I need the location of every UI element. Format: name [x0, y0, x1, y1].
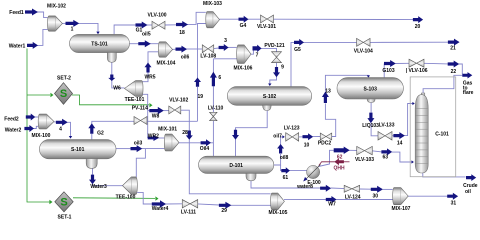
svg-text:LV-111: LV-111 [181, 209, 196, 215]
svg-text:Water2: Water2 [5, 128, 22, 134]
svg-text:LV-123: LV-123 [284, 125, 300, 131]
stream arrow 29 [219, 202, 232, 209]
svg-text:G2: G2 [97, 131, 104, 137]
stream arrow oil6 [176, 46, 188, 53]
svg-text:1: 1 [71, 27, 74, 33]
svg-text:MIX-103: MIX-103 [203, 1, 222, 7]
svg-text:oil7: oil7 [273, 134, 282, 140]
svg-text:61: 61 [283, 175, 289, 181]
svg-text:C-101: C-101 [435, 131, 449, 137]
svg-text:MIX-102: MIX-102 [47, 3, 66, 9]
valve PVD-121 vertical [272, 52, 282, 58]
stream arrow water8 [320, 185, 331, 192]
svg-text:VLV-103: VLV-103 [355, 157, 374, 163]
svg-text:S-102: S-102 [263, 94, 277, 100]
svg-text:QHH: QHH [333, 165, 345, 171]
stream arrow Water3 down [89, 175, 96, 185]
stream arrow oil8 up [277, 144, 284, 154]
stream arrow 19 up [194, 78, 201, 87]
stream arrow 30 [371, 186, 383, 193]
stream arrow Water4 [152, 200, 166, 208]
wire oil6 MIX-104 to LV-108 [172, 48, 176, 50]
stream arrow 61 [281, 167, 290, 174]
wire stream 14 LV-133 to C-101 upper inlet [392, 135, 394, 137]
svg-text:S-103: S-103 [364, 86, 378, 92]
stream arrow WR5 up [145, 63, 152, 73]
wire S-102 boot to D-101 top inlet [236, 110, 268, 130]
svg-text:28: 28 [182, 130, 188, 136]
separator D-101 [199, 156, 274, 173]
stream arrow LIQ103 down [367, 113, 374, 124]
svg-text:19: 19 [198, 94, 204, 100]
svg-text:MIX-106: MIX-106 [234, 65, 253, 71]
wire energy SET-1 to stream Water4 [73, 197, 155, 200]
svg-text:31: 31 [451, 201, 457, 207]
svg-text:flare: flare [463, 90, 474, 96]
svg-text:29: 29 [221, 208, 227, 214]
svg-text:TS-101: TS-101 [91, 42, 108, 48]
stream arrow 28 down [186, 131, 193, 140]
wire C-101 overhead to flare junction [423, 75, 462, 95]
svg-text:20: 20 [415, 24, 421, 30]
stream arrow 1 [66, 20, 80, 27]
mixer MIX-105 [271, 193, 285, 210]
wire water8 D-101 boot to LV-124 [251, 181, 321, 188]
mixer MIX-102 [48, 16, 63, 31]
svg-text:30: 30 [373, 193, 379, 199]
stream arrow G4 [239, 16, 249, 23]
svg-text:MIX-104: MIX-104 [157, 61, 176, 67]
stream arrow 7 [253, 45, 262, 53]
stream arrow G2 up [88, 123, 95, 134]
wire E-100 outlet up to stream 62 and VLV-103 [319, 150, 335, 166]
svg-text:G103: G103 [382, 68, 394, 74]
wire Water2 to MIX-100 [34, 126, 39, 128]
svg-text:PV-114: PV-114 [132, 105, 148, 111]
svg-text:Water3: Water3 [90, 184, 107, 190]
valve VLV-103 [357, 146, 365, 155]
separator S-103 [337, 78, 403, 99]
wire TEE-101 lower outlet to W8 and WR2 [143, 94, 148, 138]
stream arrow 31 [447, 193, 458, 200]
wire D-101 gas out to oil8 LV-123 [274, 154, 281, 165]
stream arrow 13 up [322, 92, 329, 104]
splitter TEE-100 [123, 177, 138, 195]
mixer MIX-100 [38, 114, 54, 129]
stream arrow 63 [381, 148, 392, 155]
svg-text:PDC2: PDC2 [318, 141, 332, 147]
svg-text:4: 4 [59, 127, 62, 133]
stream arrow 20 [413, 16, 423, 23]
three-phase separator TS-101 [70, 34, 130, 52]
svg-text:13: 13 [325, 89, 331, 95]
stream arrow 14 [393, 132, 405, 139]
svg-text:VLV-100: VLV-100 [147, 13, 166, 19]
mixer MIX-107 [393, 188, 409, 205]
svg-text:21: 21 [450, 45, 456, 51]
svg-text:7: 7 [256, 52, 259, 58]
stream arrow 6 up [210, 72, 217, 87]
adjust block SET-1 [55, 192, 73, 212]
svg-text:oil8: oil8 [280, 155, 289, 161]
mixer MIX-104 [158, 42, 172, 57]
stream arrow Feed2 [26, 114, 36, 121]
svg-text:oil3: oil3 [134, 141, 143, 147]
separator S-102 [227, 87, 311, 106]
wire stream 61 branch to E-100 [280, 165, 283, 171]
wire stream 10 LV-123 to PDC2 [299, 136, 303, 138]
stream arrow G5 [294, 39, 304, 46]
svg-text:18: 18 [179, 30, 185, 36]
stream arrow Water2 [24, 125, 34, 132]
wire VLV-102 out to stream 28 down to MIX-105 [181, 110, 190, 131]
valve LV-124 [344, 185, 352, 192]
boot of S-102 [263, 105, 272, 110]
wire energy QHH red into E-100 [319, 162, 335, 166]
svg-text:Oil4: Oil4 [200, 146, 210, 152]
valve VLV-106 [409, 59, 417, 67]
stream arrow G103 [384, 60, 396, 67]
wire W6 TS-101 boot to TEE-101 [111, 62, 113, 75]
stream arrow W8 [149, 107, 164, 115]
svg-text:S: S [60, 88, 67, 100]
svg-text:Water4: Water4 [152, 206, 169, 212]
svg-text:LV-108: LV-108 [200, 54, 216, 60]
svg-text:MIX-107: MIX-107 [392, 206, 411, 212]
boot of TS-101 [107, 52, 116, 62]
wire stream 29 LV-111 to MIX-105 [198, 204, 220, 205]
stream arrow WR2 [148, 135, 159, 141]
svg-text:10: 10 [304, 143, 310, 149]
stream arrow Water1 [27, 42, 38, 49]
valve LV-123 [286, 133, 293, 142]
wire oil3 S-101 to MIX-101 [116, 148, 131, 150]
boot of D-101 [246, 173, 256, 181]
separator S-101 [39, 140, 116, 159]
boot of S-101 [86, 159, 97, 169]
wire stream 7 MIX-106 to PVD-121 [251, 48, 254, 54]
svg-text:9: 9 [281, 65, 284, 71]
splitter TEE-101 [125, 81, 144, 97]
svg-text:WR5: WR5 [144, 74, 155, 80]
sub-flowsheet boundary rectangle around C-101 [410, 77, 456, 177]
wire stream 6 to MIX-106 lower inlet [213, 58, 236, 60]
stream arrow Oil4 [201, 139, 211, 146]
svg-text:VLV-101: VLV-101 [257, 24, 276, 30]
svg-text:S-101: S-101 [71, 147, 85, 153]
stream arrow 62 into VLV-103 [334, 147, 350, 155]
boot of S-103 [367, 99, 375, 103]
column C-101 [421, 93, 424, 96]
svg-text:G4: G4 [240, 23, 247, 29]
wire energy into SET-1 [49, 200, 52, 204]
valve VLV-100 [152, 21, 159, 29]
wire stream 9 PVD-121 to S-102 [276, 62, 278, 67]
stream arrow into D-101 top down [232, 130, 239, 140]
svg-text:TEE-100: TEE-100 [116, 195, 136, 201]
stream arrow to flare [462, 72, 472, 78]
valve PV-114 [134, 117, 141, 125]
svg-text:6: 6 [218, 75, 221, 81]
stream arrow Crude oil [466, 174, 476, 181]
valve LV-108 [202, 45, 208, 53]
wire G4 MIX-103 out to VLV-101 and stream 20 [219, 18, 239, 20]
svg-text:SET-2: SET-2 [57, 75, 71, 81]
svg-text:MIX-101: MIX-101 [158, 127, 177, 133]
wire Water1 to MIX-102 [36, 29, 48, 45]
svg-text:LV-110: LV-110 [208, 106, 224, 112]
stream arrow W7 [326, 196, 337, 203]
wire energy SET main green vertical from Water1 down to SET-1 [26, 49, 28, 96]
mixer MIX-103 [206, 12, 220, 28]
wire stream 31 MIX-107 outlet [408, 195, 448, 197]
wire stream 13 PDC2 up to S-103 [325, 104, 335, 137]
svg-text:W6: W6 [113, 86, 121, 92]
svg-text:VLV-102: VLV-102 [169, 98, 188, 104]
wire Feed2 to MIX-100 [35, 116, 38, 118]
wire S-103 boot LIQ103 to LV-133 [370, 102, 372, 113]
energy arrow QHH red left [334, 158, 344, 165]
svg-text:MIX-100: MIX-100 [32, 133, 51, 139]
adjust block SET-2 [55, 83, 73, 105]
stream arrow 21 [448, 39, 460, 46]
wire TEE-100 upper outlet up to oil3 junction [136, 149, 145, 178]
svg-text:MIX-105: MIX-105 [269, 210, 288, 216]
wire stream 30 LV-124 to MIX-107 [359, 188, 371, 190]
wire stream 1 MIX-102 to TS-101 [62, 22, 66, 24]
wire stream 63 VLV-103 to C-101 lower inlet [349, 149, 357, 151]
mixer MIX-106 [237, 45, 251, 64]
svg-text:LIQ103: LIQ103 [362, 123, 379, 129]
wire Water4 TEE-100 to LV-111 [137, 192, 152, 204]
wire S-103 gas G103 to VLV-106 and stream 22 [383, 64, 385, 78]
svg-text:3: 3 [224, 38, 227, 44]
svg-text:SET-1: SET-1 [58, 215, 72, 221]
valve PDC2 [320, 133, 326, 140]
wire Water3 S-101 boot to TEE-100 [92, 168, 94, 175]
svg-text:oil5: oil5 [142, 32, 151, 38]
wire W8 to VLV-102 [148, 110, 150, 112]
stream arrow 3 [219, 44, 229, 51]
svg-text:63: 63 [383, 155, 389, 161]
svg-text:TEE-101: TEE-101 [125, 97, 145, 103]
svg-text:W7: W7 [328, 202, 336, 208]
svg-text:62: 62 [337, 155, 343, 161]
valve VLV-101 [261, 15, 268, 23]
svg-text:LV-133: LV-133 [379, 123, 395, 129]
wire TS-101 oil5 to MIX-104 [129, 43, 139, 45]
stream arrow 4 [56, 119, 68, 126]
wire TS-101 gas to G1 VLV-100 18 MIX-103 [114, 25, 136, 34]
valve LV-111 [182, 200, 190, 209]
svg-text:14: 14 [397, 141, 403, 147]
svg-text:S: S [60, 196, 67, 208]
svg-text:| VLV-106: | VLV-106 [406, 68, 428, 74]
wire stream 19 into MIX-103 [197, 87, 199, 121]
wire WR2 into MIX-101 [159, 137, 165, 139]
wire energy into SET-2 [27, 94, 50, 96]
stream arrow Feed1 [25, 9, 38, 16]
wire Feed1 to MIX-102 [37, 12, 48, 18]
wire W7 MIX-105 to MIX-107 [284, 199, 326, 201]
stream arrow oil5 [138, 40, 151, 47]
wire G2 S-101 to PV-114 and stream 19 [91, 134, 93, 140]
svg-text:Feed1: Feed1 [9, 10, 24, 16]
wire S-102 gas G5 to VLV-104 and stream 21 [291, 42, 295, 86]
valve LV-110 vertical [210, 112, 218, 116]
stream arrow 18 [176, 21, 188, 28]
stream arrow W6 down [108, 75, 115, 82]
stream arrow 9 down [273, 67, 280, 77]
svg-text:LV-124: LV-124 [345, 194, 361, 200]
svg-text:VLV-104: VLV-104 [354, 48, 373, 54]
svg-text:oil: oil [465, 189, 471, 195]
wire stream 6 and LV-110 vertical to D-101 [212, 59, 214, 72]
svg-text:water8: water8 [296, 184, 313, 190]
stream arrow 22 [448, 61, 460, 68]
stream arrow 10 [303, 133, 314, 140]
wire stream 4 MIX-100 to S-101 [54, 121, 57, 123]
svg-text:oil6: oil6 [181, 54, 190, 60]
wire WR5 TEE-101 to MIX-104 [143, 63, 149, 82]
wire stream 3 LV-108 to MIX-106 [214, 47, 220, 50]
mixer MIX-101 [164, 134, 179, 151]
wire energy SET-2 to stream W8 [72, 95, 149, 105]
wire Oil4 MIX-101 out to D-101 [179, 142, 201, 144]
svg-text:WR2: WR2 [148, 134, 159, 140]
valve LV-133 [378, 132, 385, 141]
svg-text:D-101: D-101 [229, 163, 243, 169]
stream arrow oil3 [131, 145, 143, 152]
valve VLV-104 [357, 38, 364, 46]
svg-text:G5: G5 [294, 47, 301, 53]
stream arrow G1 [136, 22, 148, 29]
svg-text:Feed2: Feed2 [4, 117, 19, 123]
svg-text:PVD-121: PVD-121 [264, 43, 285, 49]
heater E-100 [307, 165, 320, 178]
svg-text:22: 22 [451, 69, 457, 75]
wire Crude oil from C-101 bottom [423, 173, 466, 177]
valve VLV-102 [169, 106, 175, 114]
svg-text:Water1: Water1 [9, 43, 26, 49]
svg-text:W8: W8 [152, 113, 160, 119]
